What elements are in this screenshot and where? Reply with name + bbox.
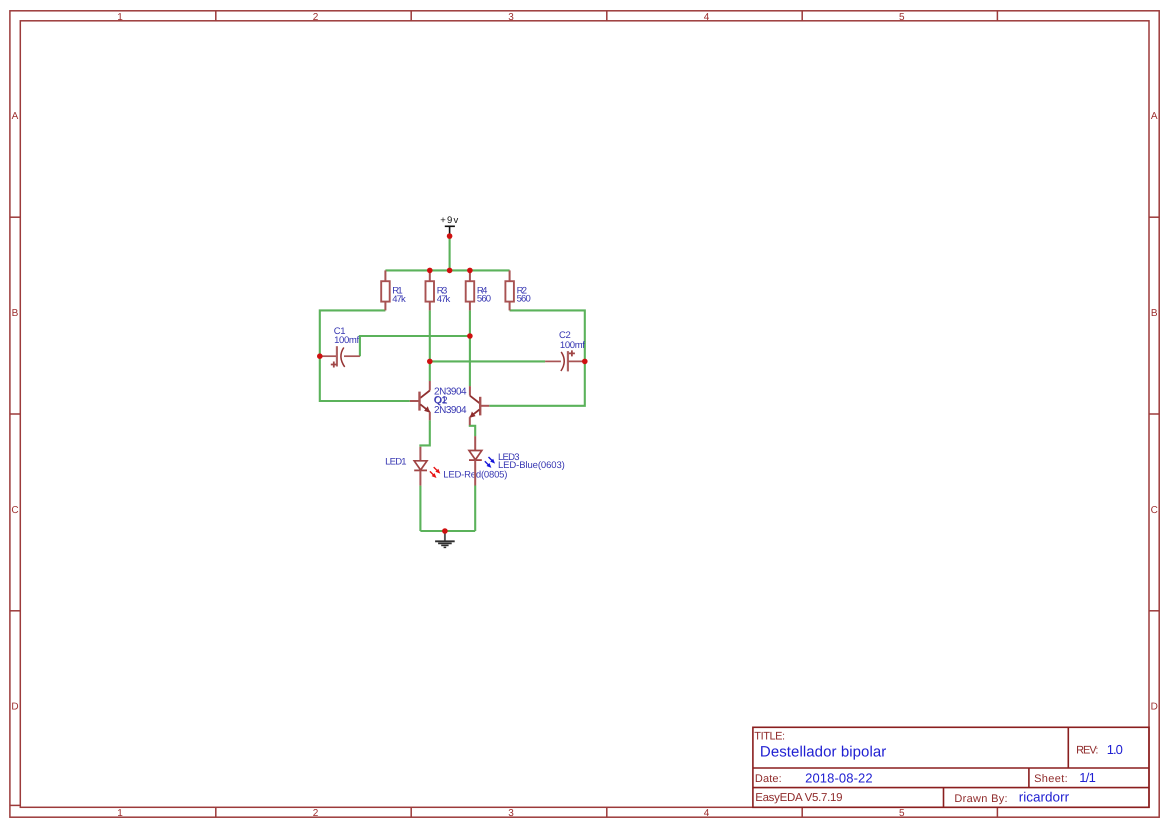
- junction R3 top on VCC bus: [427, 268, 433, 274]
- svg-text:+9v: +9v: [440, 215, 458, 226]
- svg-text:47k: 47k: [392, 294, 406, 305]
- wire LED3 cathode down: [474, 486, 476, 532]
- svg-text:1/1: 1/1: [1079, 770, 1096, 785]
- svg-text:C: C: [1151, 505, 1158, 516]
- ground: [435, 531, 455, 547]
- wire bottom ground run: [420, 530, 475, 532]
- svg-text:TITLE:: TITLE:: [754, 730, 785, 742]
- svg-text:D: D: [11, 702, 18, 713]
- net +9v power flag: [440, 215, 458, 233]
- transistor Q1: [410, 381, 430, 420]
- wire LED1 cathode down: [419, 486, 421, 531]
- junction ground node: [442, 528, 448, 534]
- junction C1 left pin on left net: [317, 353, 323, 359]
- resistor R2: [505, 270, 530, 310]
- svg-text:2: 2: [313, 12, 319, 23]
- svg-text:2N3904: 2N3904: [434, 405, 467, 416]
- svg-text:560: 560: [477, 294, 491, 305]
- LED LED1: [385, 447, 507, 486]
- capacitor C2: [545, 330, 585, 371]
- svg-text:B: B: [12, 308, 19, 319]
- svg-text:4: 4: [704, 12, 710, 23]
- junction C2 right pin on right net: [582, 359, 588, 365]
- transistor labels Q1/Q2: [434, 386, 467, 416]
- svg-text:LED-Blue(0603): LED-Blue(0603): [498, 460, 565, 471]
- svg-text:1: 1: [117, 808, 123, 819]
- wire R1 bottom to Q1 base: [320, 310, 410, 401]
- transistor Q2: [470, 386, 490, 425]
- junction C2 wire on R3/Q1 collector net: [427, 359, 433, 365]
- junction C1 wire on R4/Q2 collector net: [467, 333, 473, 339]
- LED3 light arrows: [483, 456, 496, 470]
- svg-text:560: 560: [517, 294, 531, 305]
- wire top bus: [385, 269, 509, 271]
- svg-text:Date:: Date:: [755, 773, 782, 785]
- title block: [753, 727, 1149, 807]
- svg-text:C: C: [11, 505, 18, 516]
- junction at +9v flag stem: [447, 233, 453, 239]
- svg-text:A: A: [12, 111, 19, 122]
- wire C2 left run: [430, 360, 545, 362]
- wire power stem: [449, 234, 451, 271]
- svg-text:LED1: LED1: [385, 456, 407, 467]
- wire R4 bottom column: [469, 310, 471, 386]
- svg-text:REV:: REV:: [1076, 745, 1098, 757]
- junction R4 top on VCC bus: [467, 268, 473, 274]
- resistor R3: [426, 270, 451, 310]
- resistor R4: [466, 270, 491, 310]
- svg-text:100mf: 100mf: [334, 335, 359, 346]
- LED1 light arrows: [428, 466, 441, 480]
- svg-text:B: B: [1151, 308, 1158, 319]
- svg-text:5: 5: [899, 808, 905, 819]
- svg-text:2018-08-22: 2018-08-22: [805, 770, 873, 785]
- svg-text:EasyEDA V5.7.19: EasyEDA V5.7.19: [755, 792, 842, 804]
- LED LED3: [469, 436, 565, 485]
- svg-text:D: D: [1151, 702, 1158, 713]
- svg-text:Drawn By:: Drawn By:: [954, 793, 1007, 805]
- wire C1 right riser: [360, 336, 470, 356]
- wire Q1 emitter to LED1: [420, 420, 429, 447]
- junction power stem on VCC bus: [447, 268, 453, 274]
- svg-text:1: 1: [117, 12, 123, 23]
- svg-text:Destellador bipolar: Destellador bipolar: [760, 743, 886, 760]
- svg-text:2: 2: [313, 808, 319, 819]
- svg-text:4: 4: [704, 808, 710, 819]
- wire R3 bottom column: [429, 310, 431, 381]
- svg-text:ricardorr: ricardorr: [1019, 789, 1070, 804]
- wire R2 bottom to Q2 base: [489, 310, 585, 405]
- svg-text:1.0: 1.0: [1107, 742, 1123, 757]
- resistor R1: [381, 270, 406, 310]
- svg-text:5: 5: [899, 12, 905, 23]
- svg-text:100mf: 100mf: [560, 340, 585, 351]
- svg-text:47k: 47k: [437, 294, 451, 305]
- wire Q2 emitter to LED3: [470, 425, 475, 436]
- svg-text:3: 3: [508, 12, 514, 23]
- svg-text:3: 3: [508, 808, 514, 819]
- svg-text:Sheet:: Sheet:: [1034, 773, 1068, 785]
- capacitor C1: [321, 326, 360, 368]
- svg-text:A: A: [1151, 111, 1158, 122]
